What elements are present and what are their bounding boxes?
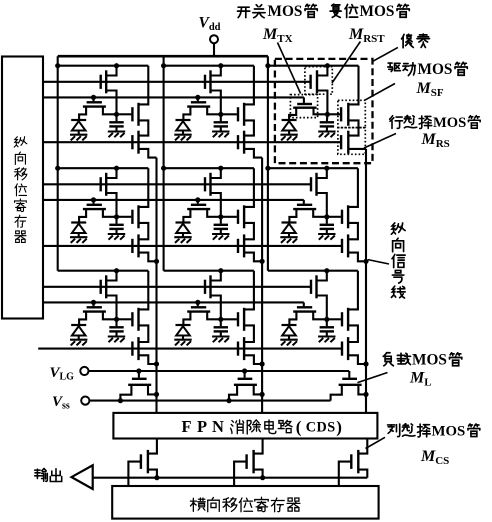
- junction: M_CS source on output line col 1: [154, 475, 159, 480]
- label: 列选择MOS管 (column select MOS): [388, 424, 400, 437]
- wire: M_CS drain to CDS col 1: [148, 439, 157, 454]
- wire: M_RST drain r3c2: [211, 271, 221, 281]
- wire: M_TX anode arm r3c2: [183, 312, 190, 325]
- transistor M_SF r1c3 (source follower): [327, 113, 340, 115]
- label: 纵向信号线 (vertical signal line): [391, 223, 405, 234]
- wire: M_SF drain r3c2: [244, 271, 254, 310]
- wire: M_RST drain r1c1: [106, 66, 116, 76]
- transistor M_RST r2c1 (reset MOS): [99, 177, 101, 191]
- power terminal V_LG circle: [80, 367, 88, 375]
- junction: M_L drain on signal line col 1: [154, 392, 159, 397]
- wire: row select line row 2: [43, 245, 341, 247]
- node FD r3c3 (floating diffusion): [324, 317, 329, 322]
- transistor M_RS r1c1 (row select MOS): [131, 135, 133, 149]
- label: 开关MOS管 (switch MOS): [238, 7, 250, 17]
- wire: M_SF source to M_RS drain r1c3: [348, 120, 358, 135]
- transistor M_RS r3c1 (row select MOS): [131, 342, 133, 356]
- ground: C ground r2c2: [212, 233, 229, 235]
- wire: M_SF drain r2c1: [139, 168, 149, 207]
- capacitor C r1c1: [115, 114, 117, 121]
- wire: M_RST source to FD r2c2: [211, 193, 221, 217]
- transistor M_RST r2c2 (reset MOS): [204, 177, 206, 191]
- wire: M_L drain to signal line col 3: [358, 385, 366, 395]
- transistor M_L col 3 (load MOS): [348, 371, 350, 378]
- junction: M_L drain on signal line col 2: [260, 392, 265, 397]
- transistor M_L col 2 (load MOS): [244, 371, 246, 378]
- transistor M_TX r2c3 (transfer MOS): [303, 200, 305, 204]
- wire: M_RST source to FD r1c3: [317, 91, 327, 115]
- wire: M_TX to FD r3c1: [103, 312, 117, 320]
- wire: M_L drain to signal line col 2: [254, 385, 262, 395]
- node FD r1c2 (floating diffusion): [218, 112, 223, 117]
- wire: M_TX anode arm r1c2: [183, 107, 190, 120]
- node: Vdd branch row1 col3: [268, 65, 359, 67]
- ground: C ground r3c3: [318, 335, 335, 337]
- photodiode PD r1c3: [282, 119, 297, 121]
- node: Vdd branch row3 col1: [58, 270, 149, 272]
- ground: C ground r3c2: [212, 335, 229, 337]
- junction: M_RS source on signal line r3c2: [260, 361, 265, 366]
- capacitor C r2c1: [115, 217, 117, 224]
- svg-text:P: P: [197, 417, 207, 436]
- block: FPN elimination circuit (CDS) box: [113, 413, 377, 439]
- wire: M_TX anode arm r2c2: [183, 209, 190, 222]
- junction: branch tap on feed r2c3: [265, 166, 270, 171]
- label: 像素 (pixel): [402, 34, 414, 47]
- transistor M_SF r3c2 (source follower): [221, 318, 237, 320]
- junction: M_RST drain on branch r1c1: [114, 63, 119, 68]
- wire: reset row line row 1: [43, 81, 311, 83]
- leader: M_RST: [332, 42, 360, 84]
- wire: transfer row line row 2: [43, 199, 304, 201]
- node: Vdd branch row3 col3: [268, 270, 358, 272]
- wire: M_RST source to FD r1c2: [211, 91, 221, 115]
- wire: M_SF source to M_RS drain r2c1: [139, 223, 149, 239]
- junction: M_L gate on V_LG col 1: [136, 368, 141, 373]
- label: 驱动MOS管 (drive MOS): [388, 63, 401, 71]
- ground: PD ground r2c3: [280, 236, 297, 238]
- junction: M_RS source on signal line r3c3: [363, 361, 368, 366]
- capacitor C r1c2: [220, 114, 222, 121]
- svg-text:MOS: MOS: [412, 352, 447, 369]
- junction: M_RST drain on branch r2c3: [324, 166, 329, 171]
- transistor M_TX r1c2 (transfer MOS): [197, 97, 199, 101]
- wire: M_L source to Vss col 3: [331, 385, 342, 401]
- wire: reset row line row 2: [43, 183, 311, 185]
- wire: M_SF source to M_RS drain r1c1: [139, 120, 149, 135]
- wire: M_RS source to column signal line r3c1: [139, 355, 157, 364]
- wire: M_RS source to column signal line r2c1: [139, 253, 157, 262]
- wire: M_RST source to FD r3c3: [317, 296, 327, 320]
- wire: M_TX to FD r1c2: [207, 107, 221, 115]
- wire: M_TX anode arm r1c3: [289, 108, 296, 120]
- junction: M_L source on Vss col 1: [118, 398, 123, 403]
- wire: Vdd top rail: [58, 55, 268, 58]
- leader: M_TX: [278, 43, 301, 94]
- wire: M_TX anode arm r3c1: [79, 312, 86, 325]
- wire: M_SF drain r2c3: [348, 168, 358, 207]
- junction: M_L source on Vss col 2: [226, 398, 231, 403]
- wire: M_SF source to M_RS drain r2c2: [244, 223, 254, 239]
- wire: row select line row 3: [38, 348, 341, 350]
- capacitor C r3c2: [220, 319, 222, 326]
- junction: M_RS source on signal line r2c1: [154, 259, 159, 264]
- wire: M_L drain to signal line col 1: [148, 385, 157, 395]
- ground: PD ground r3c2: [174, 339, 191, 341]
- wire: M_SF source to M_RS drain r3c1: [139, 325, 149, 342]
- wire: M_CS source to output line col 1: [148, 470, 157, 478]
- photodiode PD r1c1: [71, 119, 86, 121]
- junction: M_TX gate on row line r2c1: [91, 197, 96, 202]
- junction: M_RS source on signal line r2c3: [363, 259, 368, 264]
- leader: M_SF: [365, 84, 396, 101]
- transistor M_TX r1c1 (transfer MOS): [92, 97, 94, 101]
- wire: M_CS gate to horizontal shift register col 2: [234, 462, 247, 486]
- node: Vdd branch row2 col3: [268, 167, 358, 169]
- svg-text:(: (: [296, 418, 302, 437]
- svg-text:N: N: [212, 417, 224, 436]
- transistor M_TX r3c2 (transfer MOS): [197, 302, 199, 306]
- transistor M_TX r2c2 (transfer MOS): [197, 200, 199, 204]
- svg-text:MOS: MOS: [432, 423, 466, 439]
- photodiode PD r3c1: [71, 324, 86, 326]
- svg-text:F: F: [182, 417, 192, 436]
- transistor M_RST r1c1 (reset MOS): [99, 75, 101, 89]
- node FD r1c3 (floating diffusion): [325, 112, 330, 117]
- photodiode PD r3c3: [282, 324, 297, 326]
- transistor M_RST r1c3 (reset MOS): [309, 75, 311, 89]
- ground: PD ground r3c3: [280, 339, 297, 341]
- junction: M_RST drain on branch r2c1: [114, 166, 119, 171]
- wire: M_RS source to column signal line r1c1: [139, 149, 157, 158]
- capacitor C r3c1: [115, 319, 117, 326]
- wire: M_TX to FD r1c1: [103, 107, 117, 115]
- transistor M_L col 1 (load MOS): [138, 371, 140, 378]
- node FD r1c1 (floating diffusion): [114, 112, 119, 117]
- wire: vertical signal line col 2: [261, 158, 263, 413]
- wire: M_RST source to FD r1c1: [106, 91, 116, 115]
- label: 行选择MOS管 (row select MOS): [390, 116, 403, 129]
- wire: M_RST drain r2c2: [211, 168, 221, 178]
- label: 负载MOS管 (load MOS): [383, 353, 393, 366]
- transistor M_TX r2c1 (transfer MOS): [92, 200, 94, 204]
- junction: branch tap on feed r2c1: [55, 166, 60, 171]
- node: Vdd branch row2 col1: [58, 167, 149, 169]
- transistor M_RS r2c1 (row select MOS): [131, 239, 133, 253]
- wire: Vdd stub: [213, 43, 215, 57]
- junction: M_CS source on output line col 2: [260, 475, 265, 480]
- wire: M_SF source to M_RS drain r1c2: [244, 120, 254, 135]
- wire: transfer row line row 1: [43, 96, 304, 98]
- photodiode PD r2c1: [71, 221, 86, 223]
- capacitor C r1c3: [326, 114, 329, 121]
- transistor M_CS col 3 (column select MOS): [350, 454, 352, 469]
- ground: PD ground r1c3: [280, 134, 297, 136]
- transistor M_RS r1c2 (row select MOS): [237, 135, 239, 149]
- block: vertical shift register box: [2, 57, 43, 319]
- transistor M_SF r2c3 (source follower): [327, 216, 341, 218]
- wire: M_TX anode arm r2c1: [79, 209, 86, 222]
- wire: M_RST drain r3c3: [317, 271, 327, 281]
- transistor M_TX r1c3 (transfer MOS): [303, 97, 305, 103]
- transistor M_RST r3c3 (reset MOS): [310, 280, 312, 294]
- wire: transfer row line row 3: [43, 301, 304, 303]
- ground: C ground r3c1: [108, 335, 125, 337]
- junction: branch tap on feed r1c2: [161, 63, 166, 68]
- ground: PD ground r2c1: [70, 236, 87, 238]
- boundary: dashed pixel outline 像素: [275, 59, 373, 163]
- wire: V_ss rail: [89, 400, 331, 402]
- wire: M_CS source to output line col 2: [254, 470, 263, 478]
- wire: M_RST drain r3c1: [106, 271, 116, 281]
- label: 横向移位寄存器: [190, 498, 205, 511]
- wire: M_TX anode arm r2c3: [289, 209, 296, 222]
- wire: M_CS gate to horizontal shift register col 3: [339, 462, 352, 486]
- transistor M_SF r3c3 (source follower): [327, 318, 341, 320]
- wire: M_TX to FD r1c3: [314, 108, 328, 115]
- node FD r2c3 (floating diffusion): [324, 214, 329, 219]
- node FD r3c1 (floating diffusion): [114, 317, 119, 322]
- ground: PD ground r1c2: [174, 134, 191, 136]
- wire: M_SF drain r3c1: [139, 271, 149, 310]
- boundary: dotted box around M_RST: [305, 67, 332, 95]
- transistor M_CS col 2 (column select MOS): [245, 454, 247, 469]
- wire: M_TX to FD r2c1: [103, 209, 117, 217]
- svg-text:MOS: MOS: [360, 3, 395, 20]
- wire: M_RST source to FD r3c2: [211, 296, 221, 320]
- junction: M_RST drain on branch r3c1: [114, 268, 119, 273]
- ground: PD ground r1c1: [70, 134, 87, 136]
- power terminal V_ss circle: [81, 397, 89, 405]
- wire: M_CS source to output line col 3: [358, 470, 367, 478]
- ground: C ground r1c3: [318, 130, 335, 132]
- wire: M_L source to Vss col 2: [229, 385, 237, 401]
- wire: M_CS drain to CDS col 2: [254, 439, 263, 454]
- transistor M_CS col 1 (column select MOS): [140, 454, 142, 469]
- photodiode PD r3c2: [176, 324, 191, 326]
- wire: M_RST source to FD r3c1: [106, 296, 116, 320]
- boundary: dotted box around M_SF: [338, 100, 365, 127]
- svg-text:): ): [336, 418, 342, 437]
- node: Vdd branch row2 col2: [164, 167, 254, 169]
- wire: M_RS source to column signal line r2c2: [244, 253, 262, 262]
- wire: M_RST source to FD r2c1: [106, 193, 116, 217]
- junction: M_TX gate on row line r3c2: [195, 300, 200, 305]
- svg-text:CDS: CDS: [306, 420, 336, 436]
- wire: M_RST drain r2c3: [317, 168, 327, 178]
- wire: M_SF source to M_RS drain r3c3: [348, 325, 358, 342]
- junction: M_RS source on signal line r2c2: [260, 259, 265, 264]
- wire: M_RST drain r1c3: [317, 66, 327, 76]
- transistor M_TX r3c3 (transfer MOS): [303, 302, 305, 306]
- transistor M_RS r3c2 (row select MOS): [237, 342, 239, 356]
- wire: output line: [93, 477, 368, 479]
- junction: branch tap on feed r1c3: [265, 63, 270, 68]
- wire: M_RST drain r1c2: [211, 66, 221, 76]
- leader: M_L: [358, 373, 388, 383]
- node: Vdd branch row1 col1: [58, 65, 149, 67]
- wire: M_RST drain r2c1: [106, 168, 116, 178]
- wire: M_RS source to column signal line r1c2: [244, 149, 262, 158]
- wire: M_SF drain r1c2: [244, 66, 254, 105]
- transistor M_RST r1c2 (reset MOS): [204, 75, 206, 89]
- wire: M_RS source to column signal line r3c2: [244, 355, 262, 364]
- node: Vdd branch row3 col2: [164, 270, 254, 272]
- junction: branch tap on feed r1c1: [55, 63, 60, 68]
- wire: Vdd feed mid vertical: [163, 56, 165, 271]
- svg-text:MOS: MOS: [418, 61, 453, 78]
- wire: M_SF source to M_RS drain r2c3: [348, 223, 358, 239]
- wire: M_TX to FD r3c3: [313, 312, 327, 320]
- wire: M_RS source to column signal line r2c3: [348, 253, 366, 262]
- transistor M_SF r2c2 (source follower): [221, 216, 237, 218]
- transistor M_RS r1c3 (row select MOS): [340, 135, 342, 149]
- node FD r2c1 (floating diffusion): [114, 214, 119, 219]
- node: Vdd branch row1 col2: [164, 65, 254, 67]
- boundary: dotted box around M_RS: [338, 128, 365, 155]
- transistor M_RS r2c2 (row select MOS): [237, 239, 239, 253]
- wire: M_CS gate to horizontal shift register col 1: [128, 462, 141, 486]
- junction: M_RST drain on branch r2c2: [218, 166, 223, 171]
- junction: M_RST drain on branch r3c3: [324, 268, 329, 273]
- leader: 纵向信号线: [368, 260, 389, 264]
- transistor M_RST r2c3 (reset MOS): [310, 177, 312, 191]
- power terminal Vdd circle: [210, 35, 218, 43]
- junction: M_RS source on signal line r3c1: [154, 361, 159, 366]
- wire: M_CS drain to CDS col 3: [358, 439, 367, 454]
- photodiode PD r2c3: [282, 221, 297, 223]
- node FD r3c2 (floating diffusion): [218, 317, 223, 322]
- junction: M_RST drain on branch r1c2: [218, 63, 223, 68]
- ground: C ground r1c2: [212, 130, 229, 132]
- wire: M_TX anode arm r1c1: [79, 107, 86, 120]
- wire: vertical signal line col 3: [365, 149, 367, 413]
- capacitor C r2c2: [220, 217, 222, 224]
- ground: C ground r2c3: [318, 233, 335, 235]
- wire: M_SF drain r1c1: [139, 66, 149, 105]
- svg-text:MOS: MOS: [433, 115, 466, 131]
- photodiode PD r1c2: [176, 119, 191, 121]
- wire: M_RST source to FD r2c3: [317, 193, 327, 217]
- node FD r2c2 (floating diffusion): [218, 214, 223, 219]
- boundary: dotted box around M_TX: [290, 95, 317, 118]
- label: 输出 (output): [35, 469, 48, 482]
- capacitor C r2c3: [326, 217, 328, 224]
- wire: M_SF drain r2c2: [244, 168, 254, 207]
- wire: reset row line row 3: [43, 286, 311, 288]
- transistor M_RST r3c2 (reset MOS): [204, 280, 206, 294]
- junction: M_RST drain on branch r1c3: [325, 63, 330, 68]
- wire: Vdd feed right vertical: [267, 56, 269, 271]
- wire: M_SF source to M_RS drain r3c2: [244, 325, 254, 342]
- block: horizontal shift register box: [112, 486, 378, 519]
- junction: M_TX gate on row line r1c2: [195, 95, 200, 100]
- wire: M_TX to FD r2c3: [313, 209, 327, 217]
- junction: M_TX gate on row line r1c1: [91, 95, 96, 100]
- ground: PD ground r2c2: [174, 236, 191, 238]
- output buffer amplifier triangle: [72, 465, 93, 489]
- leader: M_RS: [364, 134, 396, 149]
- wire: row select line row 1: [43, 141, 341, 143]
- wire: V_LG rail: [88, 370, 349, 372]
- transistor M_SF r3c1 (source follower): [117, 318, 132, 320]
- wire: vertical signal line col 1: [155, 158, 157, 413]
- transistor M_SF r1c2 (source follower): [221, 113, 237, 115]
- junction: M_TX gate on row line r3c1: [91, 300, 96, 305]
- leader: M_CS: [366, 437, 386, 448]
- transistor M_RS r3c3 (row select MOS): [341, 342, 343, 356]
- leader: 像素 to pixel box: [373, 47, 398, 61]
- wire: M_RS source to column signal line r3c3: [348, 355, 366, 364]
- photodiode PD r2c2: [176, 221, 191, 223]
- capacitor C r3c3: [326, 319, 328, 326]
- junction: M_L drain on signal line col 3: [363, 392, 368, 397]
- junction: branch tap on feed r2c2: [161, 166, 166, 171]
- junction: M_RST drain on branch r3c2: [218, 268, 223, 273]
- svg-text:MOS: MOS: [268, 3, 303, 20]
- ground: C ground r1c1: [108, 130, 125, 132]
- transistor M_RST r3c1 (reset MOS): [99, 280, 101, 294]
- wire: M_TX to FD r3c2: [207, 312, 221, 320]
- transistor M_TX r3c1 (transfer MOS): [92, 302, 94, 306]
- wire: M_SF drain r3c3: [348, 271, 358, 310]
- wire: M_SF drain r1c3: [348, 66, 358, 105]
- transistor M_SF r2c1 (source follower): [117, 216, 132, 218]
- label: 复位MOS管 (reset MOS): [330, 4, 341, 17]
- transistor M_RS r2c3 (row select MOS): [341, 239, 343, 253]
- ground: C ground r2c1: [108, 233, 125, 235]
- wire: M_RS source to column signal line r1c3: [348, 148, 366, 150]
- label: 纵向移位寄存器 (vertical shift register): [14, 137, 27, 147]
- ground: PD ground r3c1: [70, 339, 87, 341]
- wire: Vdd feed left vertical: [57, 56, 59, 271]
- wire: M_TX anode arm r3c3: [289, 312, 296, 325]
- junction: M_L gate on V_LG col 2: [242, 368, 247, 373]
- junction: M_TX gate on row line r2c2: [195, 197, 200, 202]
- transistor M_SF r1c1 (source follower): [117, 113, 132, 115]
- wire: M_L source to Vss col 1: [120, 385, 131, 401]
- wire: M_TX to FD r2c2: [207, 209, 221, 217]
